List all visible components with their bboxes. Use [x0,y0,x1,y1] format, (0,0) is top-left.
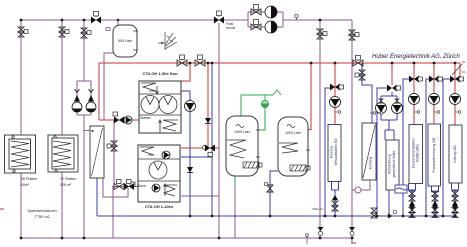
svg-text:Fussbodenheizung OG: Fussbodenheizung OG [432,137,436,172]
svg-text:Huber Energietechnik AG, Züric: Huber Energietechnik AG, Zürich [372,54,460,60]
svg-text:CTA OH 1-10es: CTA OH 1-10es [145,204,174,209]
svg-text:04B►10: 04B►10 [312,207,323,211]
svg-text:Slave: Slave [137,184,146,188]
svg-text:gewerbliche Kälte: gewerbliche Kälte [392,151,396,178]
svg-text:Master: Master [140,116,152,120]
svg-text:1000 Liter: 1000 Liter [285,131,302,135]
svg-text:36 Platten: 36 Platten [21,177,37,181]
svg-text:Speichervolumen: Speichervolumen [27,209,56,213]
svg-text:500 Liter: 500 Liter [118,39,133,43]
svg-text:60m²: 60m² [21,183,30,187]
svg-text:schutz: schutz [226,26,236,30]
svg-text:126 m²: 126 m² [60,183,72,187]
svg-text:Lüftung OG: Lüftung OG [453,145,457,163]
svg-text:KSOD (OG): KSOD (OG) [416,144,420,162]
svg-text:1000 Liter: 1000 Liter [234,130,251,134]
svg-text:7'750 m2: 7'750 m2 [34,215,50,219]
svg-text:8A: 8A [462,60,466,64]
svg-text:Verkaufsläden EG: Verkaufsläden EG [334,138,338,166]
svg-text:8A: 8A [462,70,466,74]
svg-text:CTA OH 1-50e Duo: CTA OH 1-50e Duo [142,71,178,76]
svg-text:72 Platten: 72 Platten [60,177,76,181]
svg-text:Kühlung: Kühlung [369,157,373,170]
